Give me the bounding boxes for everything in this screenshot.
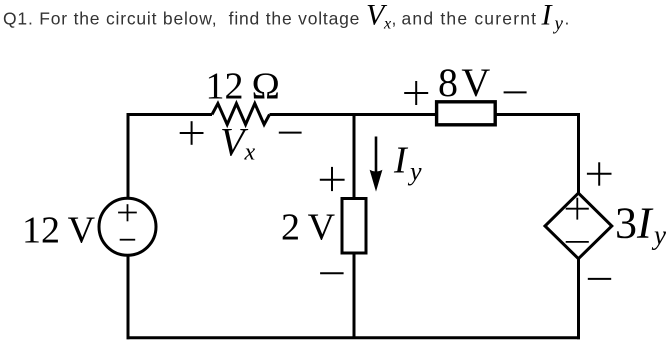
svg-text:.: . — [565, 9, 570, 29]
wire bottom — [127, 336, 581, 339]
svg-text:2 V: 2 V — [281, 207, 336, 249]
minus inside circle — [120, 239, 136, 241]
plus inside circle — [118, 204, 137, 221]
svg-text:x: x — [244, 140, 256, 166]
svg-text:y: y — [553, 14, 564, 35]
svg-text:I: I — [636, 199, 654, 248]
resistor R 12ohm zigzag — [212, 104, 270, 125]
plus sign left of 8V — [404, 81, 428, 105]
wire right vertical lower — [577, 257, 580, 339]
plus above diamond — [587, 162, 612, 185]
source box 8V — [437, 102, 496, 125]
wire left vertical lower — [127, 255, 130, 339]
svg-text:I: I — [541, 0, 554, 32]
svg-text:y: y — [407, 157, 422, 186]
minus sign right of 8V — [504, 91, 527, 93]
plus inside diamond — [566, 198, 589, 220]
wire top-right segment — [270, 113, 581, 116]
svg-text:x: x — [383, 16, 391, 33]
wire middle vertical — [353, 113, 356, 338]
minus below diamond — [588, 278, 611, 280]
svg-text:8 V: 8 V — [438, 60, 490, 105]
minus sign right of Vx — [279, 132, 302, 134]
wire left vertical upper — [127, 113, 130, 199]
wire top-left segment — [127, 113, 213, 116]
voltage source 12V circle — [99, 198, 156, 255]
plus above 2V box — [320, 167, 345, 191]
plus sign left of Vx — [180, 121, 204, 145]
minus inside diamond — [566, 241, 589, 243]
svg-text:,: , — [392, 9, 397, 29]
dependent source diamond 3Iy — [545, 193, 612, 259]
svg-text:y: y — [651, 220, 666, 250]
svg-text:and the curernt: and the curernt — [402, 9, 538, 29]
wire right vertical upper — [577, 113, 580, 195]
source box 2V — [342, 199, 366, 254]
svg-text:Q1. For the circuit below, fi: Q1. For the circuit below, find the volt… — [3, 9, 360, 29]
svg-text:12 Ω: 12 Ω — [206, 66, 281, 108]
current arrow Iy — [375, 137, 378, 176]
svg-text:12 V: 12 V — [22, 210, 96, 252]
svg-text:I: I — [393, 139, 409, 181]
svg-text:3: 3 — [615, 199, 637, 248]
minus below 2V box — [320, 272, 344, 274]
